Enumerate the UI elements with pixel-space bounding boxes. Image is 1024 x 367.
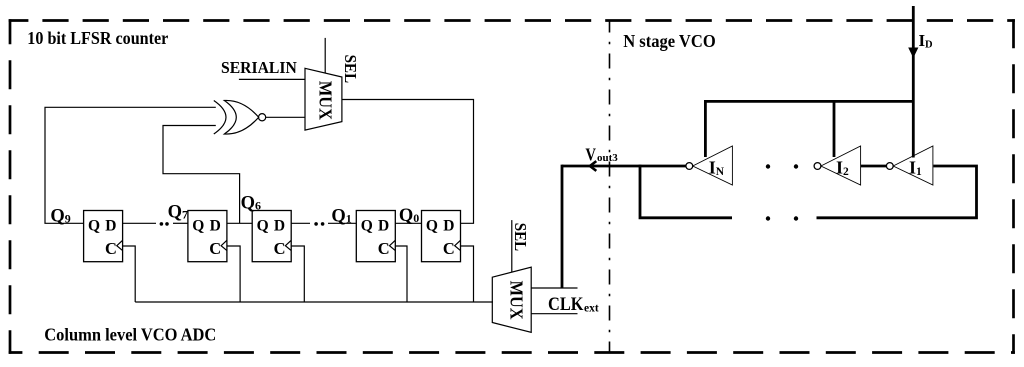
inverter IN	[686, 146, 733, 185]
label: ID	[919, 31, 934, 50]
wire: MUX U3 bottom input CLKext	[531, 313, 577, 315]
label: Q9	[50, 207, 70, 227]
svg-text:MUX: MUX	[506, 281, 526, 320]
svg-text:Q: Q	[88, 218, 100, 235]
wire: rail drop to IN	[704, 100, 707, 157]
svg-text:ext: ext	[584, 303, 599, 315]
flip-flop FF1 (Q9 stage)	[84, 211, 123, 262]
svg-text:D: D	[274, 218, 285, 235]
ellipsis dots between FF1 and FF2	[160, 222, 169, 226]
label: Q7	[168, 202, 188, 222]
inverter I1	[886, 146, 933, 185]
wire: rail drop to I2	[833, 100, 836, 157]
wire: FF2 D to FF3 Q (Q6 net)	[227, 222, 252, 224]
svg-text:Q: Q	[361, 218, 373, 235]
wire: FF1 D input segment to dots	[123, 222, 156, 224]
wire: SERIALIN input to MUX U2	[239, 78, 305, 80]
arrow head on ID current line	[908, 48, 918, 59]
svg-text:2: 2	[843, 166, 849, 178]
label: SERIALIN	[221, 58, 297, 77]
arrow head on Vout3 wire	[590, 161, 596, 171]
ellipsis dots between IN and I2	[766, 164, 798, 168]
svg-text:I: I	[709, 158, 716, 178]
label: N stage VCO	[623, 31, 716, 51]
svg-text:MUX: MUX	[315, 81, 335, 120]
svg-text:1: 1	[916, 166, 922, 178]
svg-text:Column level VCO ADC: Column level VCO ADC	[44, 325, 216, 345]
wire: MUX U3 top input from VCO clock	[531, 287, 577, 289]
wire: XNOR output to MUX U2 input	[266, 116, 305, 118]
wire: FF4 clock to clock bus	[395, 246, 407, 302]
wire: VCO bottom feedback right segment to I1 input	[817, 166, 977, 218]
wire: MUX U2 output to FF5 D input	[342, 100, 473, 224]
wire: FF4 D to FF5 Q (Q0 net)	[395, 222, 421, 224]
svg-text:C: C	[105, 239, 117, 258]
wire: dots to FF2 D	[173, 222, 188, 224]
svg-text:Q: Q	[257, 218, 269, 235]
wire: FF1 clock to clock bus	[123, 246, 136, 302]
wire: FF3 clock to clock bus	[291, 246, 304, 302]
svg-text:D: D	[105, 218, 116, 235]
dashed outer boundary bottom	[9, 351, 1015, 354]
dash-dot section divider between LFSR and VCO	[609, 20, 611, 353]
label: Q0	[399, 206, 419, 226]
wire: dots to FF4 Q	[328, 222, 356, 224]
wire: ID current line into I1	[912, 6, 915, 158]
label: CLKext	[548, 295, 599, 315]
wire: FF2 clock to clock bus	[227, 246, 240, 302]
label: SEL (rotated) for MUX U3	[511, 223, 530, 252]
wire: Vout3 line from IN output with branch to MUX U3	[562, 165, 686, 168]
dashed outer boundary right	[1012, 19, 1015, 354]
svg-text:D: D	[210, 218, 221, 235]
svg-text:D: D	[443, 218, 454, 235]
dashed outer boundary top	[9, 19, 1015, 22]
svg-text:N: N	[716, 166, 725, 178]
wire: Vout3 branch down to MUX U3 top input	[561, 165, 564, 288]
ellipsis dots in VCO bottom feedback	[766, 216, 798, 220]
svg-text:Q: Q	[192, 218, 204, 235]
flip-flop FF4 (Q1 stage)	[356, 211, 395, 262]
flip-flop FF5 (Q0 stage)	[422, 211, 461, 262]
svg-text:SERIALIN: SERIALIN	[221, 58, 297, 77]
svg-text:out3: out3	[597, 152, 618, 164]
mux U3 (clock select MUX)	[492, 267, 531, 332]
label: Q6	[241, 194, 261, 214]
wire: VCO supply rail	[705, 100, 913, 103]
mux U2 (serial input select MUX)	[305, 68, 342, 130]
wire: I1 output to I2 input	[861, 165, 887, 168]
wire: Q6 tap to XNOR bottom input	[163, 126, 240, 224]
svg-text:SEL: SEL	[511, 223, 530, 252]
inverter I2	[814, 146, 861, 185]
label: Q1	[331, 206, 351, 226]
XNOR gate U1	[214, 100, 266, 134]
flip-flop FF2 (Q7 stage)	[188, 211, 227, 262]
wire: SEL stub of MUX U3	[511, 220, 513, 272]
svg-text:I: I	[836, 158, 843, 178]
wire: FF3 D segment to dots	[291, 222, 310, 224]
wire: VCO feedback drop from Vout3 node	[640, 165, 732, 218]
wire: clock bus from FF1 to MUX U3 output	[135, 301, 493, 303]
label: SEL (rotated) for MUX U2	[341, 55, 360, 84]
svg-text:C: C	[209, 239, 221, 258]
flip-flop FF3 (Q6 stage)	[252, 211, 291, 262]
wire: SEL stub of MUX U2	[324, 38, 326, 74]
svg-text:CLK: CLK	[548, 295, 584, 315]
wire: feedback net Q9 to XNOR top input	[45, 107, 216, 223]
svg-text:D: D	[925, 40, 933, 51]
wire: FF5 clock to clock bus	[461, 246, 474, 302]
svg-text:C: C	[378, 239, 390, 258]
label: Column level VCO ADC	[44, 325, 216, 345]
label: Vout3	[585, 144, 618, 164]
svg-text:D: D	[378, 218, 389, 235]
svg-text:C: C	[274, 239, 286, 258]
label: 10 bit LFSR counter	[27, 28, 168, 48]
svg-text:SEL: SEL	[341, 55, 360, 84]
svg-text:I: I	[909, 158, 916, 178]
svg-text:C: C	[443, 239, 455, 258]
svg-text:N stage VCO: N stage VCO	[623, 31, 716, 51]
svg-text:10 bit LFSR counter: 10 bit LFSR counter	[27, 28, 168, 48]
ellipsis dots between FF3 and FF4	[314, 222, 324, 226]
svg-text:Q: Q	[426, 218, 438, 235]
dashed outer boundary left	[9, 19, 12, 354]
